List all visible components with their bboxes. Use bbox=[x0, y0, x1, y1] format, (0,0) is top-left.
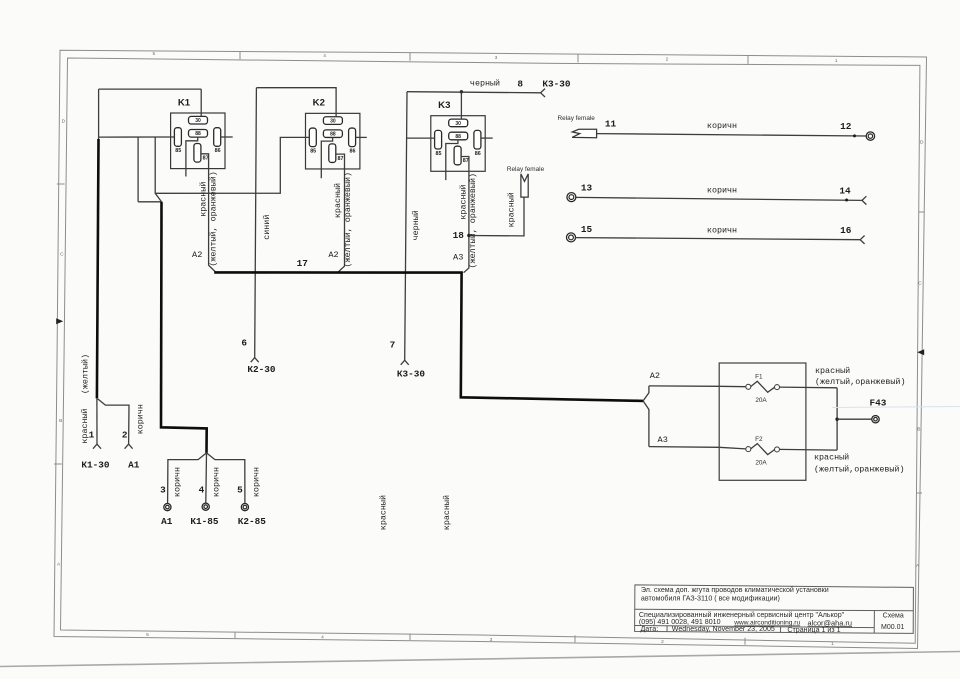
svg-text:K3: K3 bbox=[438, 100, 450, 111]
wire K1 pin88 stub bbox=[186, 141, 198, 177]
svg-text:К3-30: К3-30 bbox=[542, 78, 571, 89]
wire K2 pin86 stub right bbox=[355, 136, 367, 138]
title block divider Схема cell bbox=[873, 611, 875, 634]
svg-text:К1-30: К1-30 bbox=[81, 459, 110, 470]
wire К3-30 vertical drop (черный) to fork 7 bbox=[405, 92, 407, 361]
svg-text:Схема: Схема bbox=[883, 612, 904, 619]
svg-text:А2: А2 bbox=[650, 371, 660, 381]
wire K2 pin85 left and down bbox=[155, 137, 309, 193]
svg-text:(желтый, оранжевый): (желтый, оранжевый) bbox=[343, 172, 353, 268]
svg-text:88: 88 bbox=[330, 132, 336, 138]
svg-text:4: 4 bbox=[321, 635, 324, 641]
relay K1 pin 87 bbox=[194, 144, 201, 163]
svg-text:Wednesday, November 23, 2005: Wednesday, November 23, 2005 bbox=[672, 625, 775, 633]
svg-text:86: 86 bbox=[350, 149, 356, 155]
relay K1 body bbox=[171, 113, 225, 169]
svg-text:Страница 1 из 1: Страница 1 из 1 bbox=[787, 626, 840, 634]
wire thick bus 17 bbox=[214, 272, 643, 401]
wire K3 pin85 horizontal bbox=[407, 137, 435, 139]
relay K3 pin 85 bbox=[435, 130, 442, 149]
svg-text:1: 1 bbox=[89, 430, 95, 441]
svg-text:2: 2 bbox=[122, 429, 128, 440]
svg-text:красный: красный bbox=[442, 495, 452, 530]
svg-text:D: D bbox=[920, 140, 924, 146]
svg-text:16: 16 bbox=[840, 225, 852, 236]
svg-text:красный: красный bbox=[378, 495, 388, 530]
svg-text:C: C bbox=[60, 252, 64, 258]
terminal fork 14 bbox=[862, 196, 866, 204]
svg-text:87: 87 bbox=[463, 158, 469, 164]
svg-text:20A: 20A bbox=[755, 460, 767, 467]
relay K1 pin 86 bbox=[214, 128, 221, 147]
wire K1 pin87 down to bus 17 bbox=[201, 154, 216, 273]
svg-text:3: 3 bbox=[490, 637, 493, 643]
svg-text:черный: черный bbox=[411, 210, 421, 240]
svg-text:(желтый, оранжевый): (желтый, оранжевый) bbox=[468, 173, 478, 269]
node junction fuse rail bbox=[835, 418, 838, 421]
relay K2 pin 30 bbox=[323, 117, 342, 125]
wire top rail to K1-30 drop (черный top left) bbox=[99, 88, 202, 90]
wire K2-30 vertical drop (синий) bbox=[255, 88, 257, 358]
wire thin drop x138 from pin85 rail bbox=[137, 137, 139, 202]
relay K3 pin 87 bbox=[454, 146, 461, 165]
wire terminal 1 К1-30 stem bbox=[96, 398, 98, 444]
wire terminal 2 А1 stem bbox=[98, 399, 129, 444]
wire thick fork to fuse feed А3 bbox=[643, 401, 649, 447]
svg-text:K2: K2 bbox=[313, 98, 325, 109]
svg-text:красный: красный bbox=[815, 366, 850, 376]
wire horizontal y201.8 into thick drop bbox=[138, 201, 161, 203]
drawing frame inner border bbox=[61, 58, 920, 643]
terminal ring 12 bbox=[866, 132, 874, 140]
svg-text:красный: красный bbox=[507, 192, 517, 227]
svg-text:автомобиля ГАЗ-3110 ( все моди: автомобиля ГАЗ-3110 ( все модификации) bbox=[641, 594, 780, 602]
svg-text:синий: синий bbox=[262, 215, 272, 240]
svg-text:30: 30 bbox=[455, 121, 461, 127]
wire K3 pin86 stub right bbox=[481, 137, 493, 139]
svg-text:15: 15 bbox=[581, 224, 593, 235]
svg-text:Relay female: Relay female bbox=[558, 115, 596, 122]
terminal fork 16 bbox=[860, 236, 864, 244]
svg-text:C: C bbox=[918, 281, 922, 287]
wire K2 pin88 stub bbox=[321, 137, 332, 178]
wire А2 feed to fuse F1 bbox=[649, 385, 746, 388]
node junction K3-30 rail bbox=[460, 90, 463, 93]
svg-text:К3-30: К3-30 bbox=[397, 369, 426, 380]
relay K2 pin 87 bbox=[329, 144, 336, 163]
fuse box body bbox=[719, 363, 806, 480]
wire F1 to right rail bbox=[780, 386, 838, 389]
scanner streak artifact bbox=[832, 407, 960, 408]
title block divider дата row bbox=[635, 626, 875, 628]
svg-text:20A: 20A bbox=[755, 397, 767, 404]
svg-text:коричн: коричн bbox=[172, 467, 182, 497]
svg-text:А2: А2 bbox=[328, 250, 338, 260]
svg-text:K1: K1 bbox=[178, 97, 191, 108]
wire 11 to 12 коричн bbox=[597, 134, 867, 136]
svg-text:85: 85 bbox=[175, 148, 181, 154]
wire K1 pin85 horizontal bbox=[99, 136, 175, 138]
wire 13 to 14 коричн bbox=[576, 197, 862, 200]
svg-text:5: 5 bbox=[152, 51, 155, 57]
wire K2 pin87 down to bus 17 bbox=[336, 154, 345, 272]
wire node 18 to relay female connector bbox=[469, 197, 524, 236]
svg-text:А2: А2 bbox=[192, 250, 202, 260]
svg-text:D: D bbox=[62, 119, 66, 125]
svg-text:3: 3 bbox=[160, 485, 166, 496]
svg-text:87: 87 bbox=[338, 156, 344, 162]
frame left centerline arrow bbox=[56, 318, 63, 324]
relay K1 pin 85 bbox=[174, 128, 181, 147]
relay K3 body bbox=[431, 116, 485, 172]
svg-text:черный: черный bbox=[470, 79, 500, 89]
terminal fork К3-30 (wire 8) bbox=[541, 89, 545, 97]
svg-text:(желтый,оранжевый): (желтый,оранжевый) bbox=[814, 465, 904, 475]
svg-text:3: 3 bbox=[495, 55, 498, 61]
svg-text:К2-85: К2-85 bbox=[238, 516, 267, 527]
svg-text:А3: А3 bbox=[658, 435, 668, 445]
frame right centerline arrow bbox=[917, 349, 924, 355]
svg-text:Эл. схема доп. жгута проводов: Эл. схема доп. жгута проводов климатичес… bbox=[641, 586, 829, 594]
frame top zone ticks bbox=[239, 52, 241, 60]
terminal ring 15 bbox=[567, 233, 576, 242]
wire fork branch to ring 4 bbox=[205, 453, 208, 503]
wire А3 feed to fuse F2 bbox=[649, 447, 746, 449]
relay K2 pin 88 bbox=[323, 130, 342, 138]
wire thick middle drop to fork 3-4-5 bbox=[161, 202, 207, 453]
terminal ring 4 К1-85 bbox=[202, 503, 209, 510]
wire left drop x98.6 bbox=[98, 89, 100, 137]
relay K2 pin 86 bbox=[349, 128, 356, 147]
svg-text:7: 7 bbox=[390, 339, 396, 350]
svg-text:4: 4 bbox=[323, 53, 326, 59]
frame right zone ticks bbox=[919, 211, 925, 213]
terminal fork 6 K2-30 bbox=[251, 358, 259, 363]
svg-text:13: 13 bbox=[581, 182, 593, 193]
connector Relay female row 11 bbox=[572, 129, 597, 137]
svg-text:(желтый, оранжевый): (желтый, оранжевый) bbox=[209, 171, 219, 267]
wire thick fork to fuse feed А2 bbox=[643, 386, 649, 401]
svg-text:85: 85 bbox=[310, 149, 316, 155]
wire K1 pin86 stub right bbox=[221, 136, 233, 138]
terminal ring 13 bbox=[567, 193, 576, 202]
relay K3 pin 86 bbox=[474, 130, 481, 149]
svg-text:14: 14 bbox=[839, 185, 851, 196]
node dot wire 11-12 bbox=[853, 134, 856, 137]
wire K3 pin88 stub bbox=[446, 140, 458, 181]
svg-text:К2-30: К2-30 bbox=[247, 364, 276, 375]
frame left zone ticks bbox=[57, 183, 65, 185]
svg-text:Дата:: Дата: bbox=[641, 625, 659, 633]
connector Relay female (red wire) bbox=[521, 174, 528, 197]
terminal ring F43 bbox=[872, 416, 879, 423]
svg-text:88: 88 bbox=[455, 134, 461, 140]
relay K2 body bbox=[306, 113, 360, 169]
svg-text:5: 5 bbox=[146, 632, 149, 638]
terminal fork 2 А1 bbox=[125, 444, 133, 449]
title block divider horizontal bbox=[635, 609, 914, 611]
relay K3 pin 88 bbox=[449, 132, 468, 140]
svg-text:коричн: коричн bbox=[212, 467, 222, 497]
node 18 junction bbox=[467, 234, 470, 237]
svg-text:коричн: коричн bbox=[707, 225, 737, 235]
wire K3 pin30 to black rail bbox=[460, 92, 462, 119]
wire fuse right rail bbox=[836, 388, 838, 450]
svg-text:12: 12 bbox=[840, 121, 852, 132]
svg-text:B: B bbox=[917, 427, 920, 433]
wire 15 to 16 коричн bbox=[576, 238, 861, 240]
title block дата row vertical 2 bbox=[780, 627, 782, 633]
svg-text:А1: А1 bbox=[128, 459, 140, 470]
fuse F2 bbox=[746, 447, 751, 452]
svg-text:F1: F1 bbox=[755, 374, 763, 381]
svg-text:коричн: коричн bbox=[252, 467, 262, 497]
wire thin drop x155 with jog bbox=[155, 137, 161, 202]
terminal ring 3 А1 bbox=[164, 504, 171, 511]
svg-text:А3: А3 bbox=[453, 253, 463, 263]
svg-text:5: 5 bbox=[237, 485, 243, 496]
svg-text:красный: красный bbox=[333, 183, 343, 218]
svg-text:К1-85: К1-85 bbox=[190, 516, 219, 527]
svg-text:красный: красный bbox=[814, 453, 849, 463]
wire K1 pin30 to top rail bbox=[200, 89, 202, 116]
svg-text:8: 8 bbox=[517, 79, 523, 90]
svg-text:87: 87 bbox=[203, 155, 209, 161]
terminal ring 5 К2-85 bbox=[241, 504, 248, 511]
svg-text:11: 11 bbox=[605, 119, 617, 130]
svg-text:М00.01: М00.01 bbox=[881, 624, 904, 631]
paper bottom edge shadow bbox=[0, 652, 960, 667]
relay K1 pin 30 bbox=[189, 116, 208, 124]
wire thick red К1-30 drop bbox=[97, 139, 99, 398]
svg-text:2: 2 bbox=[661, 639, 664, 645]
svg-text:(желтый): (желтый) bbox=[81, 354, 91, 394]
svg-text:30: 30 bbox=[330, 118, 336, 124]
svg-text:Relay female: Relay female bbox=[507, 166, 545, 173]
svg-text:2: 2 bbox=[666, 56, 669, 62]
svg-text:красный: красный bbox=[458, 184, 468, 219]
frame bottom zone ticks bbox=[234, 632, 236, 639]
node dot wire 13-14 bbox=[845, 199, 848, 202]
terminal fork 7 К3-30 bbox=[401, 360, 409, 365]
relay K3 pin 30 bbox=[449, 119, 468, 127]
svg-text:1: 1 bbox=[835, 58, 838, 64]
title block body bbox=[635, 585, 914, 634]
wire F2 to right rail bbox=[780, 448, 838, 451]
svg-text:6: 6 bbox=[241, 338, 247, 349]
svg-text:30: 30 bbox=[195, 118, 201, 124]
svg-text:коричн: коричн bbox=[707, 121, 737, 131]
title block дата row vertical 1 bbox=[666, 626, 668, 632]
fuse F1 bbox=[746, 384, 751, 389]
svg-text:88: 88 bbox=[195, 131, 201, 137]
svg-text:А1: А1 bbox=[161, 516, 173, 527]
svg-text:85: 85 bbox=[436, 151, 442, 157]
svg-text:4: 4 bbox=[199, 485, 205, 496]
wire K3 pin87 down through node 18 to bus bbox=[461, 157, 469, 273]
wire fork branch to ring 3 bbox=[168, 453, 207, 504]
svg-text:B: B bbox=[59, 418, 62, 424]
relay K1 pin 88 bbox=[189, 130, 208, 138]
node junction left drop to thick red wire bbox=[98, 137, 100, 139]
svg-text:коричн: коричн bbox=[135, 404, 145, 434]
svg-text:1: 1 bbox=[831, 641, 834, 647]
wire to terminal F43 bbox=[837, 418, 872, 420]
wire черный 8 rail to К3-30 terminal bbox=[407, 92, 541, 93]
svg-text:17: 17 bbox=[297, 258, 308, 269]
wire fork branch to ring 5 bbox=[207, 453, 245, 504]
svg-text:F2: F2 bbox=[755, 436, 763, 443]
svg-text:86: 86 bbox=[215, 148, 221, 154]
terminal fork 1 К1-30 bbox=[93, 444, 101, 449]
svg-text:коричн: коричн bbox=[707, 185, 737, 195]
svg-text:86: 86 bbox=[475, 151, 481, 157]
svg-text:красный: красный bbox=[199, 182, 209, 217]
wire K2 pin30 up and left to K2-30 drop bbox=[256, 88, 336, 117]
svg-text:(желтый,оранжевый): (желтый,оранжевый) bbox=[815, 377, 905, 387]
svg-text:18: 18 bbox=[453, 230, 465, 241]
relay K2 pin 85 bbox=[309, 128, 316, 147]
